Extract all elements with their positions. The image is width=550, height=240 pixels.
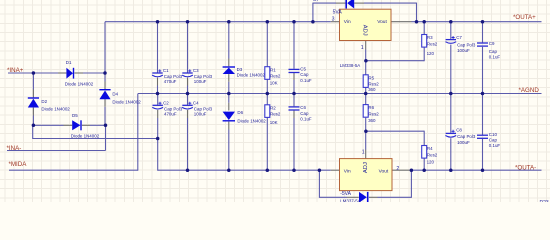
junction D1 cathode node — [103, 71, 107, 75]
svg-text:LM338-5A: LM338-5A — [340, 63, 361, 68]
svg-text:0.1uF: 0.1uF — [489, 143, 501, 148]
svg-text:1: 1 — [361, 45, 364, 51]
svg-text:10K: 10K — [270, 81, 278, 86]
wire C3 leads — [187, 22, 189, 73]
svg-text:Diode 1N4002: Diode 1N4002 — [71, 134, 100, 139]
svg-text:*OUTA+: *OUTA+ — [513, 14, 536, 21]
wire *INA- line (y=150.5) — [7, 150, 106, 152]
svg-text:2: 2 — [396, 166, 399, 172]
svg-text:Cap: Cap — [489, 138, 498, 143]
junctions on Vout+ rail — [415, 20, 419, 24]
wire bypass drop left U2 — [318, 170, 320, 198]
diode D5 — [72, 120, 80, 130]
svg-text:C10: C10 — [489, 132, 498, 137]
svg-text:Res2: Res2 — [427, 41, 438, 46]
wire Vout+ rail to *OUTA+ — [391, 21, 412, 23]
svg-text:-5VA: -5VA — [340, 191, 351, 197]
svg-text:C2: C2 — [163, 100, 169, 105]
svg-text:Res2: Res2 — [368, 112, 379, 117]
wire -node link (y=138.5) — [33, 138, 159, 140]
wire AGND rail (y=93.5) — [138, 93, 542, 95]
wire C2 leads — [157, 94, 159, 105]
svg-text:Diode 1N4002: Diode 1N4002 — [237, 119, 266, 124]
resistor R2 (Res2 10K) — [265, 105, 270, 118]
junction INA+ / D2 — [32, 71, 36, 75]
wire D6 leads — [228, 94, 230, 103]
diode D8 bottom bypass (clipped) — [359, 192, 367, 203]
wire C10 leads — [482, 94, 484, 135]
wire riser bypass right — [416, 3, 418, 22]
diode D6 — [223, 112, 235, 120]
svg-text:D7: D7 — [313, 0, 319, 2]
svg-text:C8: C8 — [456, 128, 462, 133]
wire D4 column — [104, 73, 106, 82]
svg-text:R5: R5 — [368, 75, 374, 80]
junction C2/-node — [156, 137, 160, 141]
wire ADJ net U2 (y=131.2) — [366, 130, 425, 132]
svg-text:100uF: 100uF — [457, 140, 470, 145]
svg-text:360: 360 — [368, 118, 376, 123]
svg-text:*INA-: *INA- — [7, 145, 22, 152]
svg-text:0.1uF: 0.1uF — [300, 116, 312, 121]
svg-text:Vout: Vout — [379, 169, 389, 175]
capacitor C7 (Cap Pol3 100uF) — [446, 39, 456, 41]
svg-text:R2: R2 — [270, 105, 276, 110]
regulator U1 LM338 (5VA) — [340, 9, 392, 40]
junction ADJ U1 — [364, 59, 368, 63]
svg-text:0.1uF: 0.1uF — [300, 78, 312, 83]
wire *MIDA line (y=170.2) — [9, 169, 138, 171]
svg-text:C1: C1 — [163, 68, 169, 73]
wire R4 leads — [423, 131, 425, 146]
svg-text:C4: C4 — [193, 100, 199, 105]
svg-text:C7: C7 — [456, 35, 462, 40]
junctions on Vout- rail — [410, 168, 414, 172]
wire R3 leads — [423, 22, 425, 35]
wire C9 leads — [482, 22, 484, 43]
svg-text:D5: D5 — [72, 113, 78, 118]
svg-text:100uF: 100uF — [194, 112, 207, 117]
wire riser D1 node to +rail — [104, 22, 106, 73]
svg-text:*MIDA: *MIDA — [9, 161, 28, 168]
diode D3 — [223, 68, 235, 74]
wire Vout- rail to *OUTA- — [392, 169, 411, 171]
svg-text:Cap: Cap — [489, 49, 498, 54]
svg-text:Diode 1N4002: Diode 1N4002 — [41, 106, 70, 111]
svg-text:Vin: Vin — [344, 19, 351, 25]
wire R5 leads — [365, 61, 367, 75]
diode D7 top bypass (clipped) — [347, 0, 354, 9]
svg-text:ADJ: ADJ — [363, 162, 369, 173]
diode D4 — [99, 91, 110, 100]
capacitor C10 (Cap 0.1uF) — [477, 134, 488, 136]
wire -rail bottom left (y=170.2) — [158, 169, 331, 171]
svg-text:100uF: 100uF — [194, 79, 207, 84]
svg-text:470uF: 470uF — [164, 112, 177, 117]
svg-text:C9: C9 — [489, 41, 495, 46]
wire C4 leads — [187, 94, 189, 105]
svg-text:C6: C6 — [300, 105, 306, 110]
svg-text:D1: D1 — [66, 60, 72, 65]
svg-text:Cap: Cap — [300, 72, 309, 77]
resistor R1 (Res2 10K) — [265, 67, 270, 80]
svg-text:Cap: Cap — [300, 111, 309, 116]
capacitor C2 (Cap Pol3 470uF) — [153, 104, 163, 106]
resistor R6 (Res2 360) — [363, 105, 368, 118]
svg-text:Diode 1N4002: Diode 1N4002 — [112, 100, 141, 105]
svg-text:360: 360 — [368, 87, 376, 92]
svg-text:Vin: Vin — [344, 169, 351, 175]
diode D1 — [66, 68, 73, 79]
capacitor C6 (Cap 0.1uF) — [289, 106, 300, 108]
svg-text:Vout: Vout — [377, 19, 387, 25]
wire riser INA- to bridge — [105, 125, 107, 150]
svg-text:R4: R4 — [427, 146, 433, 151]
wire *INA+ line (y=73) — [8, 72, 58, 74]
wire C2 drop to -rail — [157, 139, 159, 171]
junctions bridge bottom — [32, 124, 36, 128]
wire C1 leads — [157, 22, 159, 73]
svg-text:R6: R6 — [368, 105, 374, 110]
wire bypass drop right U2 — [410, 170, 412, 198]
svg-text:C5: C5 — [300, 67, 306, 72]
wire C5 leads — [293, 22, 295, 69]
junction ADJ U2 — [364, 129, 368, 133]
resistor R4 (Res2 120) — [422, 146, 427, 159]
resistor R5 (Res2 360) — [363, 75, 368, 88]
wire riser bypass left — [312, 3, 314, 22]
svg-text:C3: C3 — [193, 68, 199, 73]
svg-text:D3: D3 — [237, 67, 243, 72]
capacitor C3 (Cap Pol3 100uF) — [182, 72, 192, 74]
wire ADJ net U1 (y=60.7) — [366, 60, 425, 62]
svg-text:LM337-5A: LM337-5A — [340, 198, 361, 202]
svg-text:Res2: Res2 — [270, 112, 281, 117]
capacitor C1 (Cap Pol3 470uF) — [152, 72, 162, 74]
svg-text:120: 120 — [427, 51, 435, 56]
wire U1 ADJ pin — [365, 41, 367, 50]
svg-text:Res2: Res2 — [368, 82, 379, 87]
svg-text:3: 3 — [332, 17, 335, 23]
wire +rail top (rectifier output to Vin) — [105, 21, 331, 23]
capacitor C5 (Cap 0.1uF) — [289, 68, 300, 70]
svg-text:Diode 1N4002: Diode 1N4002 — [237, 72, 266, 77]
svg-text:0.1uF: 0.1uF — [489, 54, 501, 59]
wire drop left -node — [32, 125, 34, 139]
svg-text:470uF: 470uF — [164, 79, 177, 84]
svg-text:100uF: 100uF — [457, 48, 470, 53]
wire bridge bottom (y=125.3) — [33, 124, 63, 126]
svg-text:10K: 10K — [270, 120, 278, 125]
wire D2 column — [32, 73, 34, 90]
svg-text:D6: D6 — [237, 110, 243, 115]
svg-text:Res2: Res2 — [427, 152, 438, 157]
wire R1 leads — [266, 22, 268, 67]
wire R2 leads — [266, 94, 268, 105]
wire C8 leads — [450, 94, 452, 133]
svg-text:R3: R3 — [427, 35, 433, 40]
resistor R3 (Res2 120) — [422, 35, 427, 48]
svg-text:120: 120 — [427, 159, 435, 164]
wire C6 leads — [293, 94, 295, 107]
junctions on AGND rail — [156, 92, 160, 96]
regulator U2 LM337 (-5VA) — [340, 159, 393, 191]
svg-text:Cap Pol3: Cap Pol3 — [457, 134, 476, 139]
svg-text:ADJ: ADJ — [362, 25, 368, 36]
wire top bypass line (Vin-Vout protection, y=3) — [313, 2, 336, 4]
svg-text:D4: D4 — [112, 92, 118, 97]
wire R6 leads — [365, 94, 367, 105]
wire D3 leads — [228, 22, 230, 59]
svg-text:*INA+: *INA+ — [7, 67, 24, 74]
svg-text:D2: D2 — [41, 99, 47, 104]
wire bottom bypass line (y=197.3) — [319, 196, 347, 198]
capacitor C4 (Cap Pol3 100uF) — [182, 104, 192, 106]
wire C7 leads — [450, 22, 452, 39]
svg-text:Res2: Res2 — [270, 74, 281, 79]
junctions on -rail bottom — [186, 168, 190, 172]
svg-text:*OUTA-: *OUTA- — [515, 165, 536, 172]
svg-text:5VA: 5VA — [333, 10, 343, 16]
diode D2 — [28, 99, 39, 108]
junctions on +rail — [156, 20, 160, 24]
capacitor C9 (Cap 0.1uF) — [477, 42, 488, 44]
svg-text:*AGND: *AGND — [519, 87, 540, 94]
svg-text:1: 1 — [362, 149, 365, 155]
svg-text:D23: D23 — [540, 200, 549, 202]
svg-text:Cap Pol3: Cap Pol3 — [457, 42, 476, 47]
wire AGND drop to MIDA — [137, 94, 139, 171]
svg-text:Diode 1N4002: Diode 1N4002 — [65, 81, 94, 86]
capacitor C8 (Cap Pol3 100uF) — [446, 132, 456, 134]
wire U2 ADJ pin — [365, 131, 367, 149]
svg-text:R1: R1 — [270, 67, 276, 72]
